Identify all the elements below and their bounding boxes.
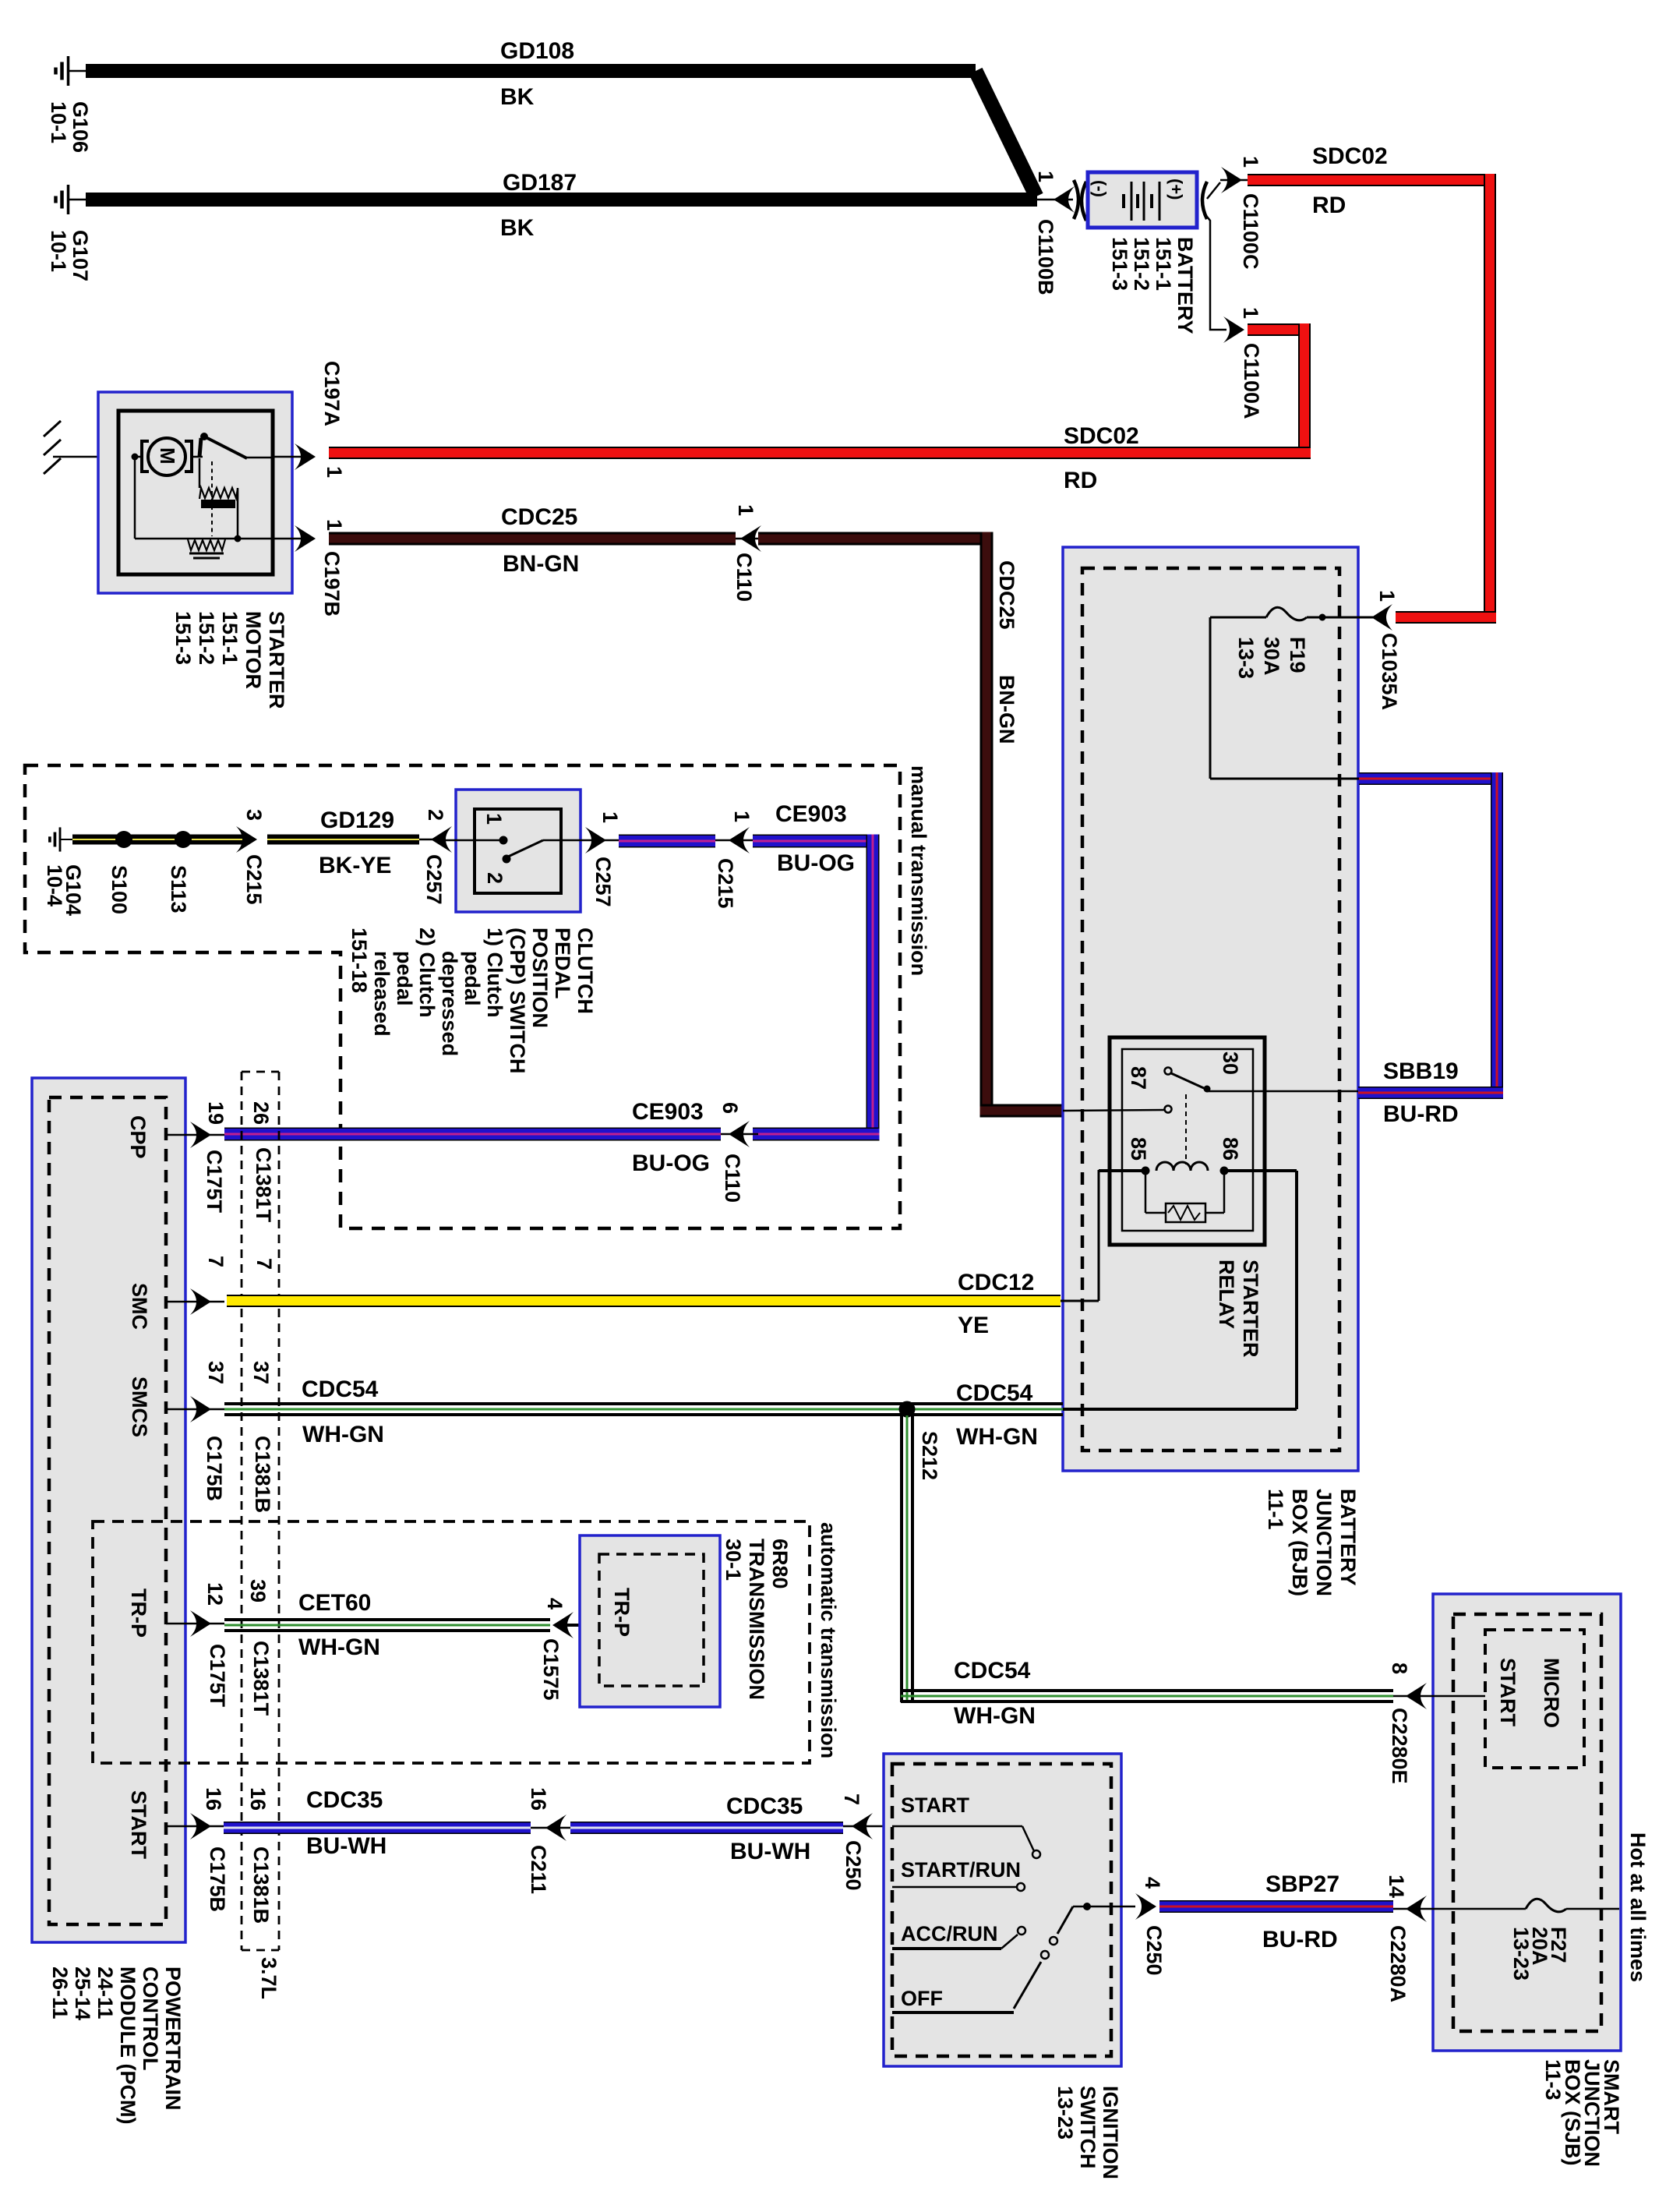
clutch pedal position CPP switch — [446, 790, 619, 912]
connector C215 pin 3 — [236, 809, 266, 905]
svg-text:(-): (-) — [1090, 180, 1110, 197]
wire SBP27 BU-RD — [1159, 1900, 1393, 1913]
svg-text:SBB19: SBB19 — [1383, 1058, 1459, 1084]
6R80 transmission label — [722, 1539, 792, 1700]
SJB component label — [1541, 2059, 1623, 2167]
color label BU-WH left — [306, 1833, 386, 1859]
relay pin 30 label — [1219, 1051, 1242, 1075]
connector C211 pin 16 — [527, 1787, 570, 1894]
svg-text:7: 7 — [204, 1256, 228, 1267]
svg-text:C257: C257 — [422, 854, 446, 905]
svg-text:12: 12 — [203, 1582, 227, 1606]
wire CDC25 BN-GN starter-to-C110 — [329, 532, 736, 546]
svg-text:8: 8 — [1388, 1663, 1411, 1674]
svg-text:C197A: C197A — [320, 361, 344, 426]
smart junction box SJB — [1433, 1594, 1621, 2051]
fuse F27 value label — [1509, 1927, 1570, 1981]
svg-text:S212: S212 — [918, 1431, 941, 1480]
wire CDC54 WH-GN PCM-to-BJB — [224, 1402, 1063, 1416]
svg-text:OFF: OFF — [901, 1987, 943, 2010]
svg-text:C175T: C175T — [203, 1150, 226, 1214]
ignition switch START position — [892, 1793, 1040, 1858]
svg-text:CE903: CE903 — [775, 801, 847, 827]
color label WH-GN bottom — [954, 1703, 1036, 1729]
svg-text:7: 7 — [252, 1258, 276, 1270]
svg-text:1: 1 — [1239, 156, 1262, 168]
svg-text:BU-RD: BU-RD — [1262, 1927, 1338, 1952]
svg-text:3: 3 — [242, 809, 266, 821]
svg-text:C215: C215 — [714, 858, 737, 909]
svg-text:CE903: CE903 — [632, 1099, 704, 1125]
color label BK (GD187) — [500, 215, 535, 241]
svg-text:BU-OG: BU-OG — [632, 1150, 710, 1176]
svg-text:CET60: CET60 — [298, 1590, 371, 1616]
connector C1100A pin 1 — [1207, 217, 1263, 419]
connector C110 pin 6 — [718, 1102, 758, 1203]
PCM pin 19 connector C175T — [166, 1101, 228, 1214]
svg-text:BU-OG: BU-OG — [777, 850, 855, 876]
connector C1381T pin 26 column — [242, 1072, 279, 1950]
splice S113 label — [167, 865, 190, 913]
svg-text:WH-GN: WH-GN — [954, 1703, 1036, 1729]
relay coil 85-86 — [1063, 1162, 1297, 1409]
wire CDC25 BN-GN C110-to-BJB — [758, 532, 1063, 1118]
svg-text:C1035A: C1035A — [1378, 633, 1401, 710]
svg-text:C2280A: C2280A — [1386, 1925, 1410, 2002]
hot at all times label — [1626, 1832, 1650, 1982]
svg-text:SDC02: SDC02 — [1064, 423, 1139, 449]
color label BK — [500, 84, 535, 110]
BJB component label — [1264, 1489, 1360, 1596]
svg-text:C175T: C175T — [206, 1644, 229, 1708]
svg-text:16: 16 — [246, 1787, 270, 1811]
svg-text:BU-WH: BU-WH — [730, 1839, 810, 1864]
wire GD129 BK-YE ground segment — [72, 835, 243, 845]
connector C1381B label lower — [249, 1846, 273, 1924]
connector C197B pin 1 — [273, 519, 346, 617]
color label BK-YE — [319, 853, 391, 878]
relay switch contacts — [1063, 1068, 1358, 1165]
svg-text:1: 1 — [323, 519, 346, 531]
net label SDC02 mid — [1064, 423, 1139, 449]
C1381B pin 16 label — [246, 1787, 270, 1811]
wire CE903 BU-OG segment to PCM — [224, 1128, 721, 1141]
svg-text:C1100A: C1100A — [1240, 343, 1263, 419]
ground G107 — [56, 185, 88, 214]
svg-text:1: 1 — [482, 813, 506, 825]
color label BU-WH right — [730, 1839, 810, 1864]
svg-text:Hot at all times: Hot at all times — [1626, 1832, 1650, 1982]
net label CDC12 — [958, 1270, 1034, 1295]
fuse F19 30A — [1210, 607, 1373, 779]
svg-text:YE: YE — [958, 1313, 989, 1338]
svg-text:1: 1 — [323, 466, 346, 478]
connector C1100C pin 1 — [1202, 156, 1262, 270]
relay suppression resistor — [1145, 1171, 1224, 1222]
svg-text:37: 37 — [249, 1361, 273, 1384]
svg-text:WH-GN: WH-GN — [298, 1634, 380, 1660]
color label WH-GN left — [302, 1422, 384, 1447]
splice S100 — [115, 831, 132, 848]
C1381T pin 7 label — [252, 1258, 276, 1270]
wire CE903 BU-OG segment 2 — [753, 835, 880, 1141]
svg-text:ACC/RUN: ACC/RUN — [901, 1922, 998, 1945]
CPP switch component label — [348, 928, 597, 1073]
connector C1381B label — [251, 1436, 274, 1513]
6R80 transmission TR-P box — [580, 1535, 720, 1707]
C1381B pin 37 label — [249, 1361, 273, 1384]
connector C257 pin 2 — [419, 809, 452, 905]
net label CDC54 left — [302, 1376, 379, 1402]
connector C197A pin 1 — [273, 361, 346, 478]
connector C110 pin 1 — [732, 504, 761, 602]
PCM pin 12 connector C175T — [166, 1582, 229, 1708]
svg-text:automatic transmission: automatic transmission — [817, 1522, 840, 1758]
svg-text:CDC25: CDC25 — [501, 504, 577, 530]
connector C1035A pin 1 — [1371, 590, 1401, 710]
svg-text:BN-GN: BN-GN — [503, 551, 579, 577]
PCM pin SMC label — [128, 1283, 151, 1330]
color label RD mid — [1064, 468, 1097, 493]
relay pin 86 label — [1219, 1137, 1242, 1161]
connector C1575 pin 4 — [539, 1598, 599, 1701]
connector C250 pin 7 — [840, 1793, 892, 1891]
net label SBP27 — [1265, 1871, 1339, 1897]
wire SBB19 BU-RD — [1358, 772, 1503, 1099]
svg-text:39: 39 — [246, 1579, 270, 1603]
micro start dashed box — [1438, 1630, 1584, 1768]
svg-text:CPP: CPP — [126, 1115, 150, 1159]
color label WH-GN right — [956, 1424, 1038, 1450]
net label SBB19 — [1383, 1058, 1459, 1084]
micro start label — [1496, 1658, 1563, 1728]
connector C215 pin 1 — [714, 811, 754, 909]
wire CDC35 BU-WH segment 2 — [570, 1822, 843, 1834]
svg-text:C110: C110 — [721, 1154, 744, 1203]
svg-text:CDC35: CDC35 — [726, 1793, 803, 1819]
svg-text:C1100C: C1100C — [1239, 193, 1262, 270]
svg-text:37: 37 — [204, 1361, 228, 1384]
net label CE903 lower — [632, 1099, 704, 1125]
svg-text:BK: BK — [500, 84, 535, 110]
svg-text:CDC25: CDC25 — [995, 560, 1018, 630]
wire CDC12 inside BJB to relay coil — [1061, 1170, 1099, 1301]
svg-text:CDC54: CDC54 — [956, 1380, 1033, 1406]
ignition switch component box — [884, 1754, 1121, 2066]
svg-text:2: 2 — [483, 872, 506, 884]
connector C1381T label — [252, 1147, 275, 1223]
battery junction box BJB — [1063, 547, 1358, 1471]
color label BU-RD SBP27 — [1262, 1927, 1338, 1952]
chassis ground at starter motor — [44, 421, 118, 474]
svg-text:C1381T: C1381T — [252, 1147, 275, 1223]
svg-text:C2280E: C2280E — [1388, 1708, 1411, 1784]
ground G104 — [50, 827, 74, 851]
svg-text:SBP27: SBP27 — [1265, 1871, 1339, 1897]
svg-text:BK: BK — [500, 215, 535, 241]
ignition switch OFF position — [892, 1987, 1014, 2012]
ground G104 label — [43, 864, 85, 916]
battery B1 — [1088, 172, 1197, 228]
svg-text:C175B: C175B — [203, 1436, 226, 1501]
starter relay label — [1215, 1260, 1262, 1358]
svg-text:SDC02: SDC02 — [1312, 143, 1388, 169]
starter motor armature M — [132, 438, 192, 475]
ignition switch component label — [1054, 2086, 1122, 2179]
svg-text:BN-GN: BN-GN — [995, 675, 1018, 744]
net label CDC35 left — [306, 1787, 383, 1813]
splice S113 — [175, 831, 192, 848]
wire CDC54 WH-GN S212 branch down — [900, 1415, 1393, 1703]
PCM component label — [48, 1967, 185, 2124]
svg-text:GD108: GD108 — [500, 38, 574, 64]
svg-text:87: 87 — [1127, 1066, 1150, 1090]
svg-text:4: 4 — [543, 1598, 566, 1610]
wire CE903 BU-OG segment 1 — [619, 835, 715, 848]
color label BN-GN — [503, 551, 579, 577]
svg-text:M: M — [156, 447, 179, 465]
svg-text:86: 86 — [1219, 1137, 1242, 1161]
color label RD top — [1312, 193, 1346, 218]
svg-text:GD129: GD129 — [320, 807, 394, 833]
wire SDC02 RD battery-to-BJB — [1248, 174, 1496, 624]
svg-text:TR-P: TR-P — [127, 1588, 150, 1638]
PCM pin TR-P label — [127, 1588, 150, 1638]
svg-text:C1381B: C1381B — [249, 1846, 273, 1924]
svg-text:manual transmission: manual transmission — [907, 765, 930, 976]
svg-text:START: START — [127, 1790, 150, 1859]
PCM pin START label — [127, 1790, 150, 1859]
connector C1381T label lower — [249, 1641, 273, 1716]
svg-text:C250: C250 — [842, 1840, 865, 1891]
C1381T pin 39 label — [246, 1579, 270, 1603]
svg-text:START/RUN: START/RUN — [901, 1858, 1021, 1882]
wire GD108 BK — [86, 64, 1036, 196]
wire SDC02 RD battery-to-starter — [329, 323, 1311, 459]
svg-text:85: 85 — [1127, 1137, 1150, 1161]
wire GD187 BK — [86, 193, 1037, 207]
splice S100 label — [108, 865, 131, 914]
svg-text:CDC35: CDC35 — [306, 1787, 383, 1813]
color label BU-OG top — [777, 850, 855, 876]
net label CDC25 vertical — [995, 560, 1018, 630]
ground G106 label — [47, 101, 92, 153]
svg-text:1: 1 — [1375, 590, 1399, 602]
svg-text:S100: S100 — [108, 865, 131, 914]
net label GD187 — [503, 170, 577, 196]
svg-text:C250: C250 — [1142, 1925, 1166, 1976]
net label CDC25 — [501, 504, 577, 530]
svg-text:TR-P: TR-P — [610, 1588, 634, 1637]
PCM pin 37 connector C175B — [166, 1361, 228, 1501]
net label CE903 top — [775, 801, 847, 827]
automatic transmission label — [817, 1522, 840, 1758]
net label CET60 — [298, 1590, 371, 1616]
ignition switch ACC/RUN position — [892, 1922, 1025, 1949]
splice S212 — [899, 1401, 916, 1418]
svg-text:RD: RD — [1312, 193, 1346, 218]
svg-text:WH-GN: WH-GN — [956, 1424, 1038, 1450]
wire CDC35 BU-WH segment 1 — [224, 1822, 531, 1834]
wire GD129 BK-YE main segment — [267, 835, 419, 845]
svg-text:1: 1 — [1239, 307, 1262, 319]
svg-text:BK-YE: BK-YE — [319, 853, 391, 878]
svg-text:C257: C257 — [591, 857, 615, 907]
PCM pin SMCS label — [128, 1376, 151, 1437]
net label CDC35 right — [726, 1793, 803, 1819]
net label CDC54 bottom — [954, 1658, 1031, 1684]
svg-text:C215: C215 — [242, 854, 266, 905]
connector C1100B pin 1 — [1034, 171, 1086, 295]
wire CDC12 YE — [227, 1295, 1061, 1307]
svg-text:C110: C110 — [732, 553, 756, 602]
manual transmission label — [907, 765, 930, 976]
svg-text:6: 6 — [718, 1102, 742, 1114]
svg-text:BU-RD: BU-RD — [1383, 1101, 1459, 1127]
relay pin 87 label — [1127, 1066, 1150, 1090]
svg-text:7: 7 — [840, 1793, 863, 1805]
svg-text:26: 26 — [249, 1101, 273, 1125]
connector C2280E pin 8 — [1388, 1663, 1438, 1784]
manual transmission dashed region — [25, 765, 900, 1228]
PCM pin CPP label — [126, 1115, 150, 1159]
ignition switch START/RUN position — [892, 1858, 1025, 1891]
svg-text:RD: RD — [1064, 468, 1097, 493]
svg-text:1: 1 — [598, 811, 622, 823]
svg-text:2: 2 — [424, 809, 447, 821]
color label BU-OG lower — [632, 1150, 710, 1176]
net label CDC54 right — [956, 1380, 1033, 1406]
svg-text:4: 4 — [1141, 1877, 1164, 1889]
svg-text:C197B: C197B — [320, 551, 344, 617]
ground G107 label — [47, 230, 92, 281]
svg-text:14: 14 — [1385, 1875, 1408, 1898]
svg-text:16: 16 — [202, 1787, 225, 1811]
PCM pin 16 connector C175B — [166, 1787, 229, 1912]
C1381T pin 26 label — [249, 1101, 273, 1125]
relay pin 85 label — [1127, 1137, 1150, 1161]
svg-text:(+): (+) — [1166, 178, 1186, 200]
net label SDC02 top — [1312, 143, 1388, 169]
battery component label — [1108, 237, 1197, 334]
svg-text:START: START — [901, 1793, 969, 1817]
svg-text:CDC12: CDC12 — [958, 1270, 1034, 1295]
svg-text:C211: C211 — [527, 1845, 550, 1894]
connector C257 pin 1 — [585, 811, 622, 907]
svg-text:C175B: C175B — [206, 1846, 229, 1912]
fuse F19 value label — [1234, 637, 1309, 679]
starter solenoid switch — [192, 433, 273, 458]
color label BU-RD — [1383, 1101, 1459, 1127]
svg-text:CDC54: CDC54 — [302, 1376, 379, 1402]
PCM pin 7 connector — [166, 1256, 228, 1315]
svg-text:S113: S113 — [167, 865, 190, 913]
color label BN-GN vertical — [995, 675, 1018, 744]
color label WH-GN CET60 — [298, 1634, 380, 1660]
svg-text:1: 1 — [1034, 171, 1057, 182]
svg-text:SMC: SMC — [128, 1283, 151, 1330]
svg-text:19: 19 — [204, 1101, 228, 1125]
svg-text:C1100B: C1100B — [1034, 219, 1057, 295]
starter relay K1 — [1110, 1037, 1265, 1245]
svg-text:C1381T: C1381T — [249, 1641, 273, 1716]
starter solenoid pull-in coil — [199, 458, 242, 542]
svg-text:C1381B: C1381B — [251, 1436, 274, 1513]
svg-text:30: 30 — [1219, 1051, 1242, 1075]
starter motor component label — [171, 611, 288, 709]
engine 3.7L label — [257, 1957, 281, 1999]
connector C250 pin 4 — [1135, 1877, 1166, 1976]
svg-text:3.7L: 3.7L — [257, 1957, 281, 1999]
svg-text:16: 16 — [527, 1787, 550, 1811]
wire CDC25 inside BJB to pin 87 — [0, 0, 1, 1]
svg-text:1: 1 — [734, 504, 757, 516]
starter motor component box — [98, 392, 292, 593]
net label GD129 — [320, 807, 394, 833]
automatic transmission dashed region — [93, 1521, 810, 1763]
svg-text:CDC54: CDC54 — [954, 1658, 1031, 1684]
svg-text:BU-WH: BU-WH — [306, 1833, 386, 1859]
ground G106 — [56, 56, 88, 86]
net label GD108 — [500, 38, 574, 64]
color label YE — [958, 1313, 989, 1338]
starter ground coil — [135, 457, 273, 558]
svg-text:SMCS: SMCS — [128, 1376, 151, 1437]
splice S212 label — [918, 1431, 941, 1480]
fuse F27 20A — [1438, 1899, 1619, 1912]
powertrain control module PCM box — [32, 1078, 185, 1942]
svg-text:1: 1 — [730, 811, 754, 822]
connector C2280A pin 14 — [1385, 1875, 1438, 2002]
ignition switch wiper to pin 4 — [1014, 1903, 1135, 2009]
svg-text:WH-GN: WH-GN — [302, 1422, 384, 1447]
svg-text:C1575: C1575 — [539, 1638, 563, 1701]
wire CET60 WH-GN — [224, 1618, 550, 1632]
svg-text:GD187: GD187 — [503, 170, 577, 196]
svg-text:F1930A13-3: F1930A13-3 — [1234, 637, 1309, 679]
